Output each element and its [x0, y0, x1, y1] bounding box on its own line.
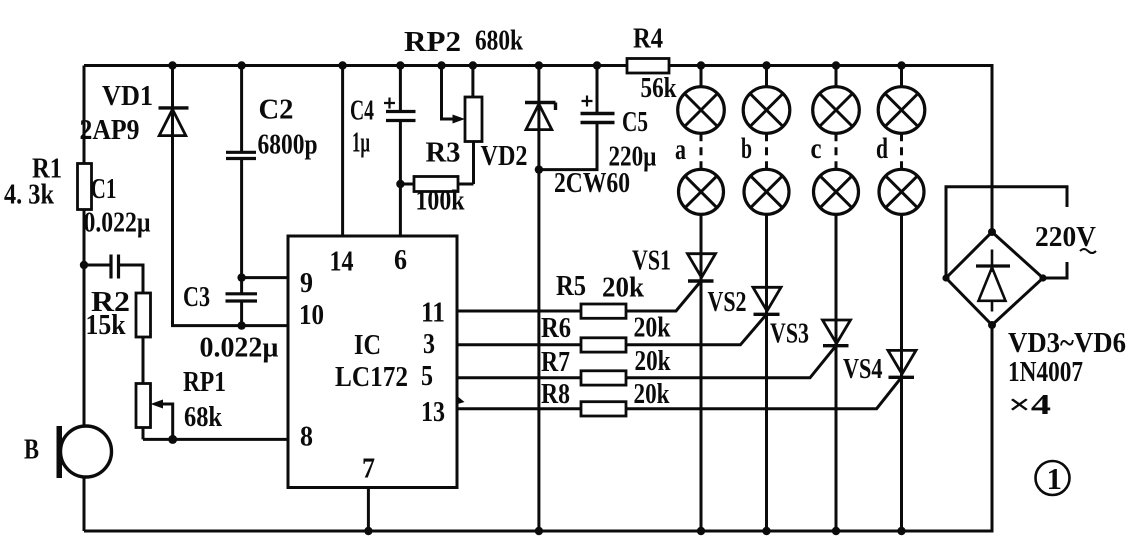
svg-text:×4: ×4 [1008, 389, 1051, 421]
svg-text:b: b [741, 132, 752, 165]
svg-text:R7: R7 [541, 346, 570, 378]
svg-text:3: 3 [423, 329, 435, 360]
svg-text:56k: 56k [641, 72, 678, 104]
svg-text:R4: R4 [633, 23, 663, 55]
svg-text:VD1: VD1 [102, 80, 153, 112]
svg-text:7: 7 [362, 454, 375, 485]
svg-text:VS3: VS3 [770, 318, 809, 350]
svg-text:c: c [811, 132, 822, 165]
svg-text:C2: C2 [259, 94, 294, 126]
svg-text:2AP9: 2AP9 [80, 114, 140, 146]
svg-text:C5: C5 [622, 106, 648, 138]
svg-text:9: 9 [300, 268, 313, 299]
svg-text:1: 1 [1047, 461, 1063, 496]
svg-text:B: B [24, 434, 39, 466]
svg-text:68k: 68k [184, 401, 223, 433]
svg-text:C1: C1 [91, 173, 117, 205]
svg-text:220V: 220V [1035, 221, 1096, 253]
svg-text:VD2: VD2 [481, 140, 528, 172]
svg-text:4. 3k: 4. 3k [4, 179, 55, 211]
svg-text:R5: R5 [556, 270, 586, 302]
svg-text:1N4007: 1N4007 [1008, 356, 1083, 388]
svg-text:R8: R8 [541, 378, 570, 410]
svg-text:VS4: VS4 [843, 353, 883, 385]
svg-text:IC: IC [354, 329, 381, 361]
svg-text:C4: C4 [350, 95, 374, 127]
svg-text:13: 13 [421, 397, 445, 428]
svg-text:100k: 100k [416, 185, 466, 217]
svg-text:10: 10 [299, 300, 324, 331]
svg-text:2CW60: 2CW60 [554, 167, 630, 199]
svg-text:d: d [876, 132, 888, 165]
svg-text:1µ: 1µ [352, 127, 370, 159]
svg-text:680k: 680k [475, 25, 524, 57]
svg-text:R6: R6 [541, 312, 571, 344]
svg-text:R3: R3 [426, 137, 461, 169]
svg-text:11: 11 [421, 298, 445, 329]
svg-text:20k: 20k [634, 378, 671, 410]
svg-text:14: 14 [330, 247, 354, 278]
svg-text:20k: 20k [634, 312, 672, 344]
svg-text:0.022µ: 0.022µ [84, 207, 151, 239]
svg-text:RP2: RP2 [404, 26, 461, 58]
svg-text:VS1: VS1 [632, 245, 671, 277]
svg-text:15k: 15k [86, 309, 127, 341]
svg-text:0.022µ: 0.022µ [200, 332, 279, 364]
svg-text:6: 6 [394, 245, 407, 276]
svg-text:6800p: 6800p [258, 129, 318, 161]
svg-text:VS2: VS2 [708, 286, 747, 318]
svg-text:C3: C3 [183, 281, 210, 313]
svg-text:RP1: RP1 [183, 366, 226, 398]
svg-text:VD3~VD6: VD3~VD6 [1008, 327, 1126, 359]
svg-text:20k: 20k [635, 345, 672, 377]
svg-text:8: 8 [300, 422, 313, 453]
svg-text:LC172: LC172 [335, 361, 408, 393]
svg-text:5: 5 [421, 361, 433, 392]
svg-text:a: a [675, 133, 686, 166]
